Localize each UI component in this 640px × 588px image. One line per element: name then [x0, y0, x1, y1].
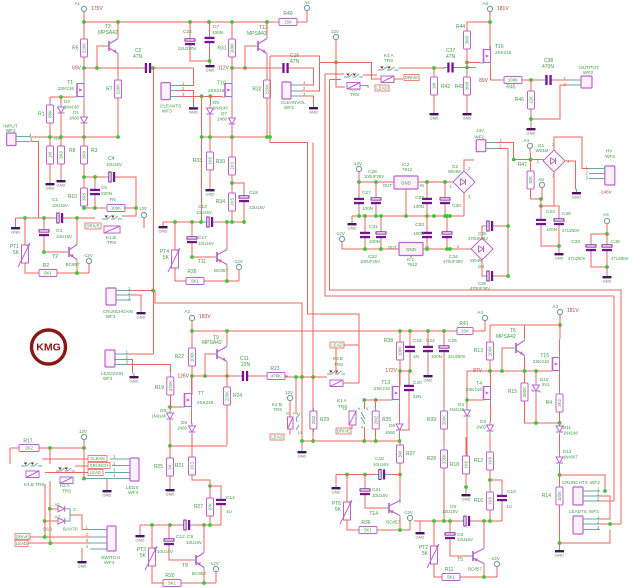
svg-text:DRIVE: DRIVE [405, 75, 418, 80]
wire 14V pin1 [499, 141, 514, 143]
junction [488, 478, 492, 482]
svg-text:220K: 220K [225, 391, 230, 401]
wire R32 down [266, 98, 268, 137]
junction [448, 214, 452, 218]
svg-text:22N: 22N [241, 362, 251, 368]
wire [489, 325, 491, 342]
svg-text:GND: GND [424, 377, 433, 382]
wire [522, 79, 543, 81]
wire [226, 376, 228, 387]
svg-text:R3: R3 [91, 148, 98, 154]
wire bus [213, 221, 244, 223]
wire 126V node [192, 375, 242, 377]
wire [174, 222, 176, 250]
svg-text:R47: R47 [518, 162, 527, 168]
ground [555, 547, 564, 557]
wire to crunchts [560, 475, 606, 491]
svg-text:12V: 12V [285, 390, 294, 395]
svg-text:-148V: -148V [599, 190, 612, 195]
junction [173, 220, 177, 224]
wire K3A to K4A [363, 74, 377, 76]
wire trunk [312, 143, 314, 411]
wire [489, 470, 491, 492]
terminal A3 [557, 309, 562, 314]
ground [206, 186, 215, 196]
junction [529, 117, 533, 121]
wire [443, 429, 445, 450]
terminal -12V [407, 515, 412, 520]
junction [265, 135, 269, 139]
wire [351, 425, 353, 429]
ground [416, 529, 425, 539]
junction [374, 180, 378, 184]
wire T15 drain [559, 325, 562, 354]
wire [152, 566, 163, 583]
transistor T4 2SK216 [481, 383, 491, 403]
junction [190, 220, 194, 224]
wire gnd bus [16, 217, 56, 219]
transistor T5 BC857 [469, 546, 484, 566]
junction [398, 528, 402, 532]
ground [136, 532, 145, 542]
svg-text:C14: C14 [226, 495, 235, 501]
diode D9 1N60 [396, 421, 403, 434]
capacitor C11 [238, 371, 252, 381]
svg-text:22U16V: 22U16V [249, 205, 265, 210]
svg-text:R9: R9 [54, 136, 60, 141]
svg-text:R31: R31 [217, 46, 226, 52]
transistor T3 [105, 36, 118, 56]
wire [606, 253, 608, 273]
svg-text:R36: R36 [361, 520, 370, 526]
capacitor C26 [554, 215, 564, 229]
svg-text:R4: R4 [546, 400, 553, 406]
junction [150, 523, 154, 527]
svg-text:R6: R6 [110, 197, 116, 202]
wire [409, 521, 411, 531]
relay coil K2.B [288, 417, 294, 429]
svg-text:R5: R5 [72, 46, 79, 52]
wire [541, 206, 559, 218]
svg-text:MPSA42: MPSA42 [202, 340, 222, 346]
svg-text:A4: A4 [477, 310, 483, 315]
svg-text:GND: GND [137, 314, 146, 319]
svg-text:R1: R1 [38, 112, 45, 118]
connector OUTPUT WF2 [581, 76, 592, 88]
svg-text:C30: C30 [452, 203, 461, 209]
svg-text:LEAD: LEAD [90, 470, 101, 475]
wire to K4A coil [320, 62, 381, 79]
capacitor C20 [404, 381, 414, 395]
junction [432, 519, 436, 523]
wire [231, 22, 233, 39]
wire D13 A2 [45, 520, 58, 522]
svg-text:470K: 470K [271, 374, 281, 379]
wire to C10 [490, 480, 502, 493]
resistor R24 [224, 384, 243, 408]
capacitor C29 [422, 194, 432, 208]
junction [465, 66, 469, 70]
svg-text:D7: D7 [221, 111, 227, 116]
terminal A1 [81, 6, 86, 11]
svg-text:D8: D8 [160, 408, 166, 413]
connector INPUT WF2 [7, 133, 16, 146]
capacitor C34 [442, 228, 452, 242]
resistor R40 [276, 19, 300, 26]
svg-text:K3 B: K3 B [333, 356, 343, 361]
diode D7 1N60 [229, 115, 236, 128]
svg-text:G3: G3 [478, 264, 485, 269]
bridge rectifier G1 [543, 150, 565, 172]
wire [191, 434, 193, 445]
ground [430, 110, 439, 120]
wire T16 source [490, 66, 492, 80]
junction [225, 220, 229, 224]
svg-text:10K: 10K [528, 176, 533, 184]
svg-text:TRS: TRS [273, 407, 282, 412]
connector LEADGAIN WF3 [105, 350, 115, 367]
svg-text:D3: D3 [480, 419, 486, 424]
wire [418, 181, 453, 183]
wire trunk [308, 143, 360, 345]
svg-text:1K5: 1K5 [230, 198, 235, 206]
capacitor C16 [279, 63, 293, 73]
junction [59, 95, 63, 99]
wire [399, 441, 401, 445]
svg-text:10U16V: 10U16V [373, 462, 389, 467]
junction [465, 61, 469, 65]
relay contacts K3.A [344, 74, 363, 78]
svg-text:WF3: WF3 [162, 108, 172, 113]
terminal A4 [527, 143, 532, 148]
resistor R29 [310, 408, 329, 432]
wire T12 collector [266, 22, 268, 36]
svg-text:WF3: WF3 [590, 480, 600, 485]
svg-text:10U16V: 10U16V [106, 162, 122, 167]
wire leadts pin2 [600, 523, 621, 525]
svg-text:1M: 1M [432, 83, 437, 89]
wire [427, 354, 429, 372]
regulator IC1 7912 [399, 243, 423, 256]
svg-text:100UF25V: 100UF25V [360, 259, 380, 264]
svg-text:A4: A4 [304, 0, 310, 5]
capacitor C24 [185, 35, 195, 49]
wire [606, 224, 608, 235]
junction [116, 20, 120, 24]
svg-text:GND: GND [332, 489, 341, 494]
svg-text:GND: GND [189, 110, 198, 115]
wire [375, 206, 377, 216]
wire bus [190, 524, 221, 526]
wire T12 emitter [266, 56, 268, 80]
ground [572, 189, 581, 199]
junction [93, 206, 97, 210]
wire [443, 331, 445, 344]
svg-text:1K8: 1K8 [208, 157, 213, 165]
junction [345, 473, 349, 477]
svg-text:3M3: 3M3 [465, 81, 470, 90]
wire [231, 137, 233, 157]
wire [489, 360, 491, 371]
connector SWITCH WF4 [107, 526, 116, 551]
svg-text:A3: A3 [538, 177, 544, 182]
terminal 12V [356, 166, 361, 171]
wire [426, 216, 428, 230]
transistor T7 2SK216 [182, 390, 192, 410]
wire trunk to crunch [131, 291, 302, 442]
wire [169, 476, 171, 486]
resistor R14 [542, 484, 563, 508]
junction [500, 369, 504, 373]
transistor T15 2SK216 [550, 354, 560, 374]
resistor R43 [455, 74, 471, 98]
transistor T13 2SK216 [390, 383, 400, 403]
wire D2 to node [60, 115, 62, 137]
wire [83, 137, 85, 146]
junction [558, 541, 562, 545]
wire [83, 440, 85, 449]
ground [348, 220, 357, 230]
wire node [170, 445, 227, 447]
svg-text:R10: R10 [68, 194, 77, 200]
svg-text:R32: R32 [252, 87, 261, 93]
resistor R41 [454, 328, 476, 335]
junction [374, 398, 378, 402]
wire crunchts pin2 to leadts pin1 [600, 496, 610, 519]
junction [448, 247, 452, 251]
svg-text:3K: 3K [168, 464, 173, 469]
svg-text:220K: 220K [82, 43, 87, 53]
resistor R15 [508, 380, 528, 404]
wire [419, 521, 421, 529]
svg-text:C5: C5 [101, 185, 107, 190]
svg-text:DRIVE: DRIVE [86, 224, 99, 229]
svg-text:IN: IN [420, 183, 424, 188]
svg-text:R22: R22 [175, 354, 184, 360]
net label DRIVE [15, 534, 30, 540]
wire [24, 218, 26, 245]
terminal 12V [141, 212, 146, 217]
junction [362, 439, 366, 443]
wire [364, 475, 366, 488]
junction [443, 180, 447, 184]
wire [410, 256, 412, 259]
svg-text:7812: 7812 [402, 167, 413, 172]
net label CRUNCH [88, 463, 110, 469]
capacitor C33 [422, 228, 432, 242]
wire [446, 216, 448, 230]
svg-text:K2 A: K2 A [60, 483, 71, 488]
svg-text:1N4148: 1N4148 [213, 106, 228, 111]
svg-text:T11: T11 [198, 259, 206, 265]
wire [10, 447, 19, 449]
connector CLEANVOL WF3 [282, 82, 291, 99]
svg-text:D9: D9 [389, 423, 395, 428]
wire [43, 218, 45, 228]
transistor T12 [254, 36, 267, 56]
relay coil K3.B [330, 380, 343, 387]
svg-text:5K1: 5K1 [168, 581, 176, 586]
connector 14V WF2 [476, 140, 486, 152]
svg-text:112V: 112V [218, 66, 230, 72]
wire T12 base [245, 46, 254, 68]
svg-text:GND: GND [159, 228, 168, 233]
resistor R32 [252, 77, 270, 101]
junction [116, 135, 120, 139]
junction [82, 446, 86, 450]
resistor R19 [155, 374, 174, 398]
wire [351, 216, 353, 220]
transistor T1 2SK216 [74, 80, 84, 100]
svg-text:R17: R17 [23, 439, 32, 445]
svg-text:200K: 200K [522, 387, 527, 397]
wire T1 source [83, 100, 85, 115]
junction [558, 473, 562, 477]
wire R6 in [84, 207, 107, 209]
wire [427, 331, 429, 344]
potentiometer PT5 [332, 499, 352, 524]
potentiometer PT1 [10, 242, 30, 267]
svg-text:2SK216: 2SK216 [197, 400, 214, 405]
junction [408, 369, 412, 373]
wire to D8 [209, 96, 211, 105]
svg-text:C23: C23 [546, 209, 555, 215]
svg-text:5K: 5K [422, 551, 429, 557]
transistor T9 [213, 344, 227, 364]
wire [497, 275, 508, 277]
svg-text:5K1: 5K1 [191, 279, 199, 284]
junction [398, 369, 402, 373]
junction [379, 214, 383, 218]
wire [191, 245, 193, 257]
wire T16 gate [467, 62, 481, 64]
wire 87V node [467, 370, 545, 372]
svg-text:A1: A1 [74, 1, 80, 6]
transistor T8 BC857 [192, 550, 204, 570]
svg-text:100K: 100K [398, 346, 403, 356]
wire [83, 57, 85, 84]
svg-text:CLEAN: CLEAN [90, 456, 104, 461]
wire [465, 474, 467, 491]
svg-text:100K: 100K [111, 206, 121, 211]
svg-text:22U250V: 22U250V [448, 354, 466, 359]
svg-text:WF2: WF2 [475, 134, 485, 139]
svg-text:10U16V: 10U16V [157, 549, 173, 554]
diode D12 1N4007 [556, 454, 563, 467]
svg-text:GND: GND [527, 130, 536, 135]
junction [82, 477, 86, 481]
wire [249, 375, 267, 377]
wire T8 emitter [203, 570, 205, 583]
junction [207, 20, 211, 24]
relay contacts K4.B [21, 463, 42, 467]
junction [82, 206, 86, 210]
resistor R8 [58, 143, 76, 167]
wire T16 drain [489, 22, 491, 51]
resistor R18 [450, 453, 470, 477]
svg-text:R28: R28 [427, 456, 436, 462]
svg-text:1M: 1M [48, 152, 53, 158]
svg-text:GND: GND [462, 496, 471, 501]
wire [83, 206, 85, 208]
svg-text:2SK216: 2SK216 [533, 359, 550, 364]
wire +175V rail [84, 21, 279, 23]
svg-text:10U16V: 10U16V [442, 509, 458, 514]
svg-text:R12: R12 [474, 458, 483, 464]
wire R23 out [285, 376, 327, 378]
svg-text:GND: GND [206, 67, 215, 72]
svg-text:200K: 200K [442, 415, 447, 425]
junction [608, 522, 612, 526]
junction [603, 489, 607, 493]
svg-text:GND: GND [430, 115, 439, 120]
wire lead [28, 542, 90, 544]
svg-text:181V: 181V [567, 308, 579, 314]
diode D8 1N4148 [167, 410, 174, 423]
svg-text:2K2: 2K2 [557, 399, 562, 407]
wire [60, 137, 62, 146]
wire [15, 218, 17, 227]
capacitor C30 [440, 194, 450, 208]
wire T3 collector [117, 22, 119, 36]
svg-text:100N: 100N [413, 204, 424, 209]
junction [488, 20, 492, 24]
svg-text:R46: R46 [515, 97, 524, 103]
svg-text:1N60: 1N60 [217, 117, 228, 122]
wire trunk TS outer [330, 80, 621, 524]
svg-text:220K: 220K [265, 84, 270, 94]
svg-text:WF3: WF3 [103, 376, 113, 381]
wire [426, 240, 428, 249]
resistor R25 [154, 455, 174, 479]
ground [462, 491, 471, 501]
resistor R33 [193, 149, 214, 173]
svg-text:69V: 69V [72, 66, 82, 72]
svg-text:1K8: 1K8 [488, 457, 493, 465]
svg-text:R23: R23 [270, 366, 279, 372]
wire [530, 160, 532, 172]
svg-text:GND: GND [555, 255, 564, 260]
net label LEAD [15, 540, 28, 546]
svg-text:36K: 36K [398, 450, 403, 458]
svg-text:1N: 1N [413, 354, 419, 359]
svg-text:5K: 5K [140, 553, 147, 559]
svg-text:172V: 172V [385, 368, 397, 374]
junction [425, 247, 429, 251]
svg-text:GND: GND [406, 247, 416, 252]
wire to K3A contact [330, 79, 341, 81]
terminal -12V [86, 258, 91, 263]
wire [409, 331, 411, 344]
svg-text:10U16V: 10U16V [56, 234, 72, 239]
wire [39, 447, 84, 449]
wire bus [385, 474, 400, 476]
svg-text:100N: 100N [546, 227, 557, 232]
wire [535, 371, 537, 382]
wire 12V [335, 40, 337, 63]
junction [398, 439, 402, 443]
terminal A3 [487, 6, 492, 11]
svg-text:TRS: TRS [107, 240, 116, 245]
ground [57, 177, 66, 187]
capacitor C9 [180, 520, 194, 530]
junction [398, 473, 402, 477]
regulator IC2 7812 [394, 176, 418, 189]
wire [88, 264, 90, 274]
wire R42 gnd [433, 95, 435, 110]
svg-text:1N4148: 1N4148 [449, 407, 464, 412]
capacitor C3 [39, 226, 49, 240]
